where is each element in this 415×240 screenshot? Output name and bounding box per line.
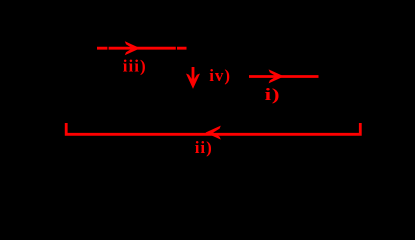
svg-text:iii): iii) — [123, 57, 147, 76]
svg-text:iv): iv) — [209, 66, 231, 85]
svg-text:ii): ii) — [195, 138, 213, 157]
svg-text:i): i) — [265, 86, 281, 104]
